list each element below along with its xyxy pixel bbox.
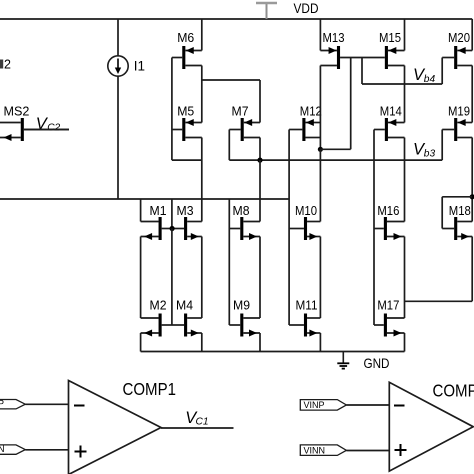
wire M8 source to M9 drain <box>259 237 261 319</box>
svg-text:b3: b3 <box>424 148 436 159</box>
transistor M13 <box>320 31 362 69</box>
svg-text:M2: M2 <box>150 299 167 313</box>
svg-text:VDD: VDD <box>294 1 319 16</box>
svg-text:M7: M7 <box>232 104 249 118</box>
transistor M2 <box>141 299 172 337</box>
pin tag VINN left <box>0 444 25 454</box>
label Vb3 <box>413 140 435 159</box>
wire M2 source to GND <box>140 333 142 352</box>
transistor M9 <box>229 299 260 337</box>
transistor M8 <box>229 204 260 240</box>
wire M13 drain to M12 source and node A <box>319 66 321 150</box>
label GND <box>364 356 390 371</box>
wire Vb3 rail <box>229 159 442 161</box>
wire M5 diode loop <box>172 130 202 161</box>
wire M12 gate to M10 M11 gates <box>288 130 290 326</box>
wire M4 source to GND <box>201 333 203 352</box>
wire gate bus rail <box>0 198 289 200</box>
wire M9 source to GND <box>259 333 261 352</box>
transistor M20 <box>442 31 472 69</box>
pin tag VINN <box>300 445 346 456</box>
svg-text:M13: M13 <box>323 31 345 45</box>
current source I1 <box>108 56 145 76</box>
transistor M19 <box>442 104 472 141</box>
wire M7 drain to Vb3 node <box>259 138 261 161</box>
junction node A M12 M13 drains <box>318 147 323 152</box>
wire M15 drain to M14 source <box>404 66 406 123</box>
svg-text:VINP: VINP <box>0 399 4 409</box>
svg-text:M17: M17 <box>377 299 399 313</box>
transistor M3 <box>172 204 202 240</box>
wire VC1 output <box>161 427 234 429</box>
transistor M6 <box>172 31 202 69</box>
wire M11 source to GND <box>319 333 321 352</box>
transistor M10 <box>289 204 320 240</box>
wire gate bus to M8 M9 gates <box>228 199 230 325</box>
svg-text:M12: M12 <box>300 104 322 118</box>
wire M10 source to M11 drain <box>319 237 321 319</box>
transistor M14 <box>374 104 405 141</box>
transistor M11 <box>289 299 320 337</box>
op-amp COMP2 <box>389 381 474 471</box>
wire GND rail <box>141 351 405 353</box>
svg-text:M3: M3 <box>177 204 194 218</box>
svg-text:MS2: MS2 <box>4 104 30 118</box>
wire COMP2 minus input <box>346 404 389 406</box>
svg-text:M4: M4 <box>176 299 193 313</box>
wire COMP1 minus input <box>25 403 68 405</box>
wire M7 gate leg to Vb3 <box>228 130 230 161</box>
wire M6 drain to M5 source <box>201 66 203 123</box>
wire M1 drain to gate bus <box>140 199 142 222</box>
op-amp COMP1 <box>69 379 177 474</box>
wire M20 gate leg to Vb4 end <box>441 58 443 85</box>
power VDD symbol <box>256 3 277 19</box>
svg-text:M1: M1 <box>150 204 167 218</box>
svg-text:VINN: VINN <box>304 445 326 455</box>
svg-text:M16: M16 <box>377 204 399 218</box>
ground GND symbol <box>337 352 349 369</box>
svg-text:COMP2: COMP2 <box>433 381 474 401</box>
transistor M7 <box>229 104 260 141</box>
wire M16 source to M17 drain <box>404 237 406 319</box>
wire VDD corner to M20 source <box>471 19 473 51</box>
wire I1 to gate bus <box>117 76 119 199</box>
transistor M16 <box>374 204 405 240</box>
svg-text:M8: M8 <box>233 204 250 218</box>
wire M1 source to M2 drain <box>140 237 142 319</box>
wire M20 drain to M19 source <box>471 66 473 123</box>
wire M6 M5 gate link <box>171 58 173 130</box>
svg-text:COMP1: COMP1 <box>123 379 177 399</box>
wire M3 source to M4 drain <box>201 237 203 319</box>
svg-text:2: 2 <box>4 58 11 72</box>
junction M7 drain Vb3 <box>257 158 262 163</box>
wire VDD to M6 source <box>201 19 203 51</box>
wire I1 to VDD rail <box>117 19 119 56</box>
svg-text:M19: M19 <box>448 104 470 118</box>
svg-text:M11: M11 <box>296 299 318 313</box>
svg-text:M9: M9 <box>233 299 250 313</box>
label VC2 <box>36 115 61 134</box>
wire M19 drain to M18 drain <box>471 138 473 222</box>
transistor M18 <box>442 204 472 240</box>
wire M14 drain to M16 drain <box>404 138 406 222</box>
wire gate bus to M1 M3 gates <box>171 199 173 229</box>
wire VDD to M15 source <box>404 19 406 51</box>
label Vb4 <box>413 66 435 85</box>
label VC1 <box>185 409 208 428</box>
svg-text:M18: M18 <box>449 204 471 218</box>
transistor MS2 <box>0 104 69 141</box>
wire M14 M16 M17 gate leg <box>373 130 375 326</box>
wire Vb3 node to M8 drain <box>259 160 261 221</box>
svg-text:VINN: VINN <box>0 444 5 454</box>
svg-text:C1: C1 <box>196 417 209 428</box>
svg-text:VINP: VINP <box>304 400 325 410</box>
junction M1 M3 gate node <box>170 226 175 231</box>
cut-off device fragment at left edge <box>0 58 11 72</box>
svg-text:M20: M20 <box>448 31 470 45</box>
svg-text:GND: GND <box>364 356 390 371</box>
wire node A to M13 gate <box>320 58 350 150</box>
wire M19 gate leg to Vb3 end <box>441 130 443 161</box>
wire VDD to M13 source <box>319 19 321 51</box>
wire COMP1 plus input <box>25 449 68 451</box>
svg-text:C2: C2 <box>47 123 60 134</box>
wire COMP2 plus input <box>346 450 389 452</box>
svg-text:M10: M10 <box>295 204 317 218</box>
wire VC2 terminal <box>24 129 69 131</box>
wire node A to M10 drain <box>319 149 321 221</box>
svg-text:M6: M6 <box>177 31 194 45</box>
transistor M1 <box>141 204 173 240</box>
pin tag VINP <box>300 400 346 411</box>
wire M5 drain to gate bus to M3 drain <box>201 138 203 222</box>
wire M1 M3 gates to M2 M4 gates <box>171 229 173 326</box>
wire M17 source to GND <box>404 333 406 352</box>
wire M6 drain branch to M7 source <box>202 80 260 123</box>
svg-text:M15: M15 <box>379 31 401 45</box>
wire M18 gate loop <box>442 197 472 229</box>
svg-text:M5: M5 <box>177 104 194 118</box>
transistor M15 <box>362 31 405 69</box>
wire M18 source to M17 drain <box>405 237 473 302</box>
label VDD <box>294 1 319 16</box>
transistor M5 <box>172 104 202 141</box>
pin tag VINP left <box>0 399 25 409</box>
wire VDD rail <box>0 18 472 20</box>
transistor M17 <box>374 299 405 337</box>
junction M18 drain gate node <box>470 194 474 199</box>
wire M13 M15 gates to Vb4 <box>361 58 363 85</box>
svg-text:I1: I1 <box>134 58 145 73</box>
transistor M12 <box>289 104 322 141</box>
wire Vb4 rail <box>362 83 442 85</box>
transistor M4 <box>172 299 202 337</box>
svg-text:b4: b4 <box>424 74 436 85</box>
svg-text:M14: M14 <box>380 104 402 118</box>
